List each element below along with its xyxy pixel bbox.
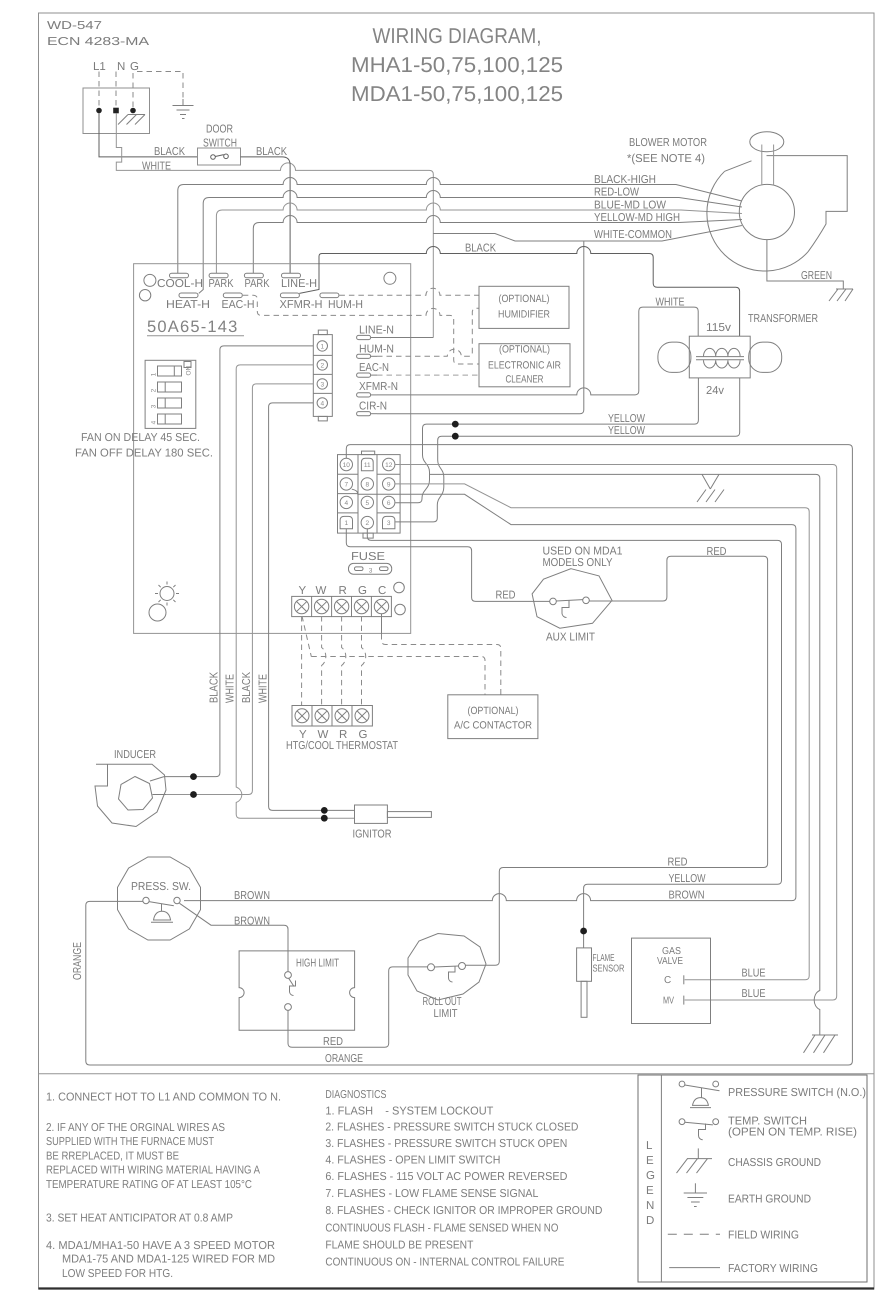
svg-text:BLUE: BLUE bbox=[742, 968, 766, 980]
svg-text:ROLL OUT: ROLL OUT bbox=[423, 996, 462, 1008]
pressure switch polygon bbox=[118, 857, 201, 940]
4-pin connector pin 3 bbox=[317, 379, 327, 389]
flame sensor rod bbox=[581, 981, 587, 1017]
dashed field wire Y down to thermostat bbox=[301, 616, 303, 706]
dashed field wire R to thermostat with hop bbox=[342, 616, 346, 706]
spade terminal EAC-N bbox=[357, 373, 377, 377]
svg-text:C: C bbox=[664, 975, 671, 986]
wire XFMR-H black to transformer bbox=[299, 247, 739, 337]
page border bottom dark edge bbox=[39, 1287, 875, 1289]
wire COOL-H to motor BLACK-HIGH bbox=[178, 178, 742, 274]
dashed wire HUM-N to humidifier bbox=[377, 308, 479, 356]
wire transformer secondary right yellow to pin3 bbox=[395, 378, 739, 522]
svg-text:C: C bbox=[378, 585, 386, 597]
svg-text:PARK: PARK bbox=[245, 278, 270, 290]
svg-text:CONTINUOUS FLASH - FLAME SENSE: CONTINUOUS FLASH - FLAME SENSED WHEN NO bbox=[325, 1223, 558, 1235]
svg-text:BLACK: BLACK bbox=[209, 672, 221, 703]
spade terminal LINE-N bbox=[357, 335, 377, 339]
DIP switch row 4 bbox=[158, 414, 182, 424]
svg-text:SENSOR: SENSOR bbox=[593, 964, 625, 975]
svg-text:MDA1-50,75,100,125: MDA1-50,75,100,125 bbox=[351, 82, 563, 106]
svg-text:R: R bbox=[339, 585, 347, 597]
legend pressure switch symbol bbox=[679, 1081, 719, 1108]
svg-text:HUMIDIFIER: HUMIDIFIER bbox=[498, 309, 550, 321]
DIP switch row 3 bbox=[158, 398, 182, 408]
aux limit contacts bbox=[550, 597, 590, 618]
svg-text:YELLOW: YELLOW bbox=[608, 413, 645, 425]
junction dot ignitor lead 1 bbox=[321, 807, 328, 814]
svg-text:ELECTRONIC AIR: ELECTRONIC AIR bbox=[488, 360, 561, 372]
wire black door switch to LINE-H bbox=[241, 157, 291, 273]
svg-text:IGNITOR: IGNITOR bbox=[353, 829, 392, 841]
svg-text:WHITE: WHITE bbox=[258, 674, 270, 703]
junction dot yellow 1 bbox=[452, 421, 459, 428]
screw terminal C bbox=[374, 599, 388, 613]
svg-text:EAC-H: EAC-H bbox=[222, 299, 255, 311]
svg-text:FLAME SHOULD BE PRESENT: FLAME SHOULD BE PRESENT bbox=[325, 1240, 473, 1252]
earth ground (top) bbox=[173, 99, 194, 119]
svg-text:LIMIT: LIMIT bbox=[434, 1008, 458, 1020]
capacitor stems bbox=[762, 145, 774, 186]
dashed wire HUM-H to humidifier bbox=[339, 288, 479, 295]
svg-text:10: 10 bbox=[343, 462, 351, 469]
svg-text:W: W bbox=[316, 585, 327, 597]
svg-text:TEMPERATURE RATING OF AT LEAST: TEMPERATURE RATING OF AT LEAST 105°C bbox=[46, 1179, 252, 1191]
notes separator line bbox=[39, 1073, 875, 1075]
svg-text:CHASSIS GROUND: CHASSIS GROUND bbox=[728, 1157, 821, 1169]
svg-text:PRESS. SW.: PRESS. SW. bbox=[131, 881, 191, 893]
thermostat screw W bbox=[315, 709, 329, 723]
svg-text:(OPTIONAL): (OPTIONAL) bbox=[499, 344, 550, 356]
svg-text:4. FLASHES - OPEN LIMIT SWITCH: 4. FLASHES - OPEN LIMIT SWITCH bbox=[325, 1155, 500, 1167]
wire pressure switch to high limit brown bbox=[180, 903, 289, 971]
control board outline 50A65-143 bbox=[134, 264, 411, 634]
svg-text:12: 12 bbox=[385, 462, 393, 469]
terminal dot L1 bbox=[96, 108, 102, 114]
svg-text:LOW SPEED FOR HTG.: LOW SPEED FOR HTG. bbox=[62, 1268, 173, 1280]
svg-text:BLUE-MD LOW: BLUE-MD LOW bbox=[594, 199, 666, 211]
svg-text:WHITE: WHITE bbox=[142, 161, 171, 173]
dashed lead N bbox=[115, 72, 117, 107]
svg-text:YELLOW-MD HIGH: YELLOW-MD HIGH bbox=[594, 212, 680, 224]
svg-text:FLAME: FLAME bbox=[593, 953, 615, 964]
12-pin pin 1 bbox=[340, 516, 352, 528]
4-pin connector pin 1 bbox=[317, 341, 327, 351]
LED sun symbol bbox=[155, 582, 179, 606]
12-pin pin 2 bbox=[361, 516, 373, 528]
dashed field wire G to thermostat with hop bbox=[362, 616, 366, 706]
thermostat terminal strip bbox=[292, 706, 372, 727]
board thermostat terminal strip bbox=[292, 596, 392, 616]
dashed wire EAC-H to electronic air cleaner bbox=[243, 295, 479, 364]
wire pin9 blue to gas valve C bbox=[395, 484, 809, 980]
chassis ground fork mid right bbox=[697, 474, 724, 502]
board hole right of C 1 bbox=[394, 582, 405, 593]
svg-text:BLOWER MOTOR: BLOWER MOTOR bbox=[629, 137, 707, 149]
spade terminal XFMR-N bbox=[357, 393, 377, 397]
svg-text:FUSE: FUSE bbox=[351, 551, 385, 563]
svg-text:4: 4 bbox=[344, 500, 348, 507]
svg-text:2: 2 bbox=[320, 362, 324, 369]
board hole right of C 2 bbox=[395, 604, 406, 615]
screw terminal R bbox=[334, 599, 348, 613]
svg-text:INDUCER: INDUCER bbox=[114, 749, 156, 761]
svg-text:HUM-N: HUM-N bbox=[359, 343, 394, 355]
wire LINE-N to neutral vertical bbox=[377, 337, 433, 339]
spade terminal LINE-H bbox=[282, 273, 301, 278]
svg-text:FAN OFF DELAY 180 SEC.: FAN OFF DELAY 180 SEC. bbox=[75, 448, 213, 460]
optional AC contactor box bbox=[448, 695, 538, 739]
svg-text:9: 9 bbox=[387, 481, 391, 488]
svg-text:BLACK: BLACK bbox=[154, 146, 185, 158]
svg-text:6: 6 bbox=[387, 500, 391, 507]
svg-text:ORANGE: ORANGE bbox=[72, 942, 84, 980]
green ground wire from motor bbox=[767, 240, 843, 289]
svg-text:4. MDA1/MHA1-50 HAVE A 3 SPEED: 4. MDA1/MHA1-50 HAVE A 3 SPEED MOTOR bbox=[46, 1240, 275, 1252]
svg-text:BROWN: BROWN bbox=[669, 889, 705, 901]
flame sensor body bbox=[577, 948, 592, 981]
junction dot yellow 2 bbox=[452, 433, 459, 440]
wire PARK1 to motor BLUE-MD LOW bbox=[216, 203, 742, 273]
svg-text:G: G bbox=[358, 585, 367, 597]
spade terminal PARK 1 bbox=[209, 273, 228, 278]
svg-text:(OPTIONAL): (OPTIONAL) bbox=[468, 705, 519, 717]
svg-text:5: 5 bbox=[365, 500, 369, 507]
door switch contacts bbox=[211, 154, 229, 159]
wire N white with jog bbox=[116, 113, 433, 337]
12-pin pin 10 bbox=[340, 458, 352, 470]
transformer secondary coil bbox=[704, 360, 741, 368]
svg-text:3: 3 bbox=[369, 568, 373, 575]
svg-text:L1: L1 bbox=[93, 61, 106, 73]
wire pin2 yellow to flame sensor bbox=[367, 529, 781, 948]
aux limit octagon bbox=[532, 569, 612, 629]
svg-text:3: 3 bbox=[151, 404, 158, 408]
12-pin pin 12 bbox=[383, 458, 395, 470]
thermostat screw Y bbox=[295, 709, 309, 723]
svg-text:2. IF ANY OF THE ORGINAL WIRES: 2. IF ANY OF THE ORGINAL WIRES AS bbox=[46, 1122, 225, 1134]
gas valve C terminal tick bbox=[683, 975, 685, 984]
inducer housing scroll bbox=[95, 764, 166, 826]
optional electronic air cleaner box bbox=[479, 344, 570, 387]
transformer primary coil bbox=[704, 348, 741, 356]
svg-text:RED: RED bbox=[496, 590, 516, 602]
svg-text:N: N bbox=[646, 1200, 654, 1212]
svg-text:L: L bbox=[646, 1140, 653, 1152]
DIP ON marker box bbox=[184, 362, 191, 368]
4-pin connector pin 2 bbox=[317, 360, 327, 370]
svg-text:(OPTIONAL): (OPTIONAL) bbox=[499, 293, 550, 305]
board circle below LED bbox=[149, 604, 166, 621]
screw terminal W bbox=[314, 599, 328, 613]
svg-text:MV: MV bbox=[663, 996, 674, 1007]
wire aux limit to red loop to roll out bbox=[466, 556, 768, 965]
svg-text:BLACK-HIGH: BLACK-HIGH bbox=[594, 174, 656, 186]
svg-text:REPLACED WITH WIRING MATERIAL: REPLACED WITH WIRING MATERIAL HAVING A bbox=[46, 1165, 260, 1177]
screw terminal Y bbox=[294, 599, 308, 613]
svg-text:2: 2 bbox=[151, 388, 158, 392]
junction dot ignitor lead 2 bbox=[321, 815, 328, 822]
wire CIR-N to white common bbox=[377, 241, 584, 414]
wire pin1 to aux limit bbox=[346, 529, 549, 602]
gas valve MV terminal tick bbox=[683, 996, 685, 1005]
svg-text:4: 4 bbox=[151, 420, 158, 424]
svg-text:RED: RED bbox=[668, 857, 688, 869]
svg-text:SUPPLIED WITH THE FURNACE MUST: SUPPLIED WITH THE FURNACE MUST bbox=[46, 1136, 214, 1148]
svg-text:2. FLASHES - PRESSURE SWITCH S: 2. FLASHES - PRESSURE SWITCH STUCK CLOSE… bbox=[325, 1122, 578, 1134]
svg-text:1: 1 bbox=[320, 343, 324, 350]
board hole top left 1 bbox=[144, 274, 156, 286]
svg-text:YELLOW: YELLOW bbox=[669, 873, 706, 885]
board hole top left 2 bbox=[139, 290, 150, 301]
svg-text:BE RREPLACED, IT MUST BE: BE RREPLACED, IT MUST BE bbox=[46, 1150, 179, 1162]
svg-text:1: 1 bbox=[344, 520, 348, 527]
chassis ground bottom right bbox=[804, 1035, 839, 1053]
blower motor rotor octagon bbox=[739, 184, 794, 239]
svg-text:7. FLASHES - LOW FLAME SENSE S: 7. FLASHES - LOW FLAME SENSE SIGNAL bbox=[325, 1188, 539, 1200]
dashed lead G bbox=[132, 73, 134, 108]
svg-text:HTG/COOL THERMOSTAT: HTG/COOL THERMOSTAT bbox=[286, 740, 398, 752]
svg-text:1. CONNECT HOT TO L1 AND COMMO: 1. CONNECT HOT TO L1 AND COMMON TO N. bbox=[46, 1092, 281, 1104]
svg-text:MHA1-50,75,100,125: MHA1-50,75,100,125 bbox=[351, 53, 563, 77]
svg-text:HIGH LIMIT: HIGH LIMIT bbox=[296, 958, 339, 970]
pressure switch contacts bbox=[143, 897, 180, 922]
dashed field wire Y slant bbox=[302, 616, 311, 657]
svg-text:XFMR-H: XFMR-H bbox=[280, 299, 323, 311]
wire XFMR-N white to transformer primary bbox=[377, 307, 698, 395]
svg-text:HUM-H: HUM-H bbox=[328, 299, 363, 311]
svg-text:3: 3 bbox=[320, 381, 324, 388]
svg-text:3. SET HEAT ANTICIPATOR AT 0.8: 3. SET HEAT ANTICIPATOR AT 0.8 AMP bbox=[46, 1212, 233, 1224]
4-pin connector body bbox=[313, 330, 332, 421]
svg-text:(OPEN ON TEMP. RISE): (OPEN ON TEMP. RISE) bbox=[728, 1127, 857, 1139]
12-pin pin 3 bbox=[383, 516, 395, 528]
wire HEAT-H to motor RED-LOW bbox=[199, 191, 742, 294]
svg-text:WHITE-COMMON: WHITE-COMMON bbox=[594, 229, 672, 241]
12-pin pin 5 bbox=[361, 496, 373, 508]
svg-text:CIR-N: CIR-N bbox=[359, 401, 387, 413]
fuse holder bbox=[349, 563, 392, 574]
svg-text:ECN 4283-MA: ECN 4283-MA bbox=[47, 36, 149, 48]
wire pin7 brown to pressure switch bbox=[184, 489, 796, 900]
svg-text:FACTORY WIRING: FACTORY WIRING bbox=[728, 1263, 818, 1275]
screw terminal G bbox=[354, 599, 368, 613]
ignitor element lead bbox=[387, 812, 431, 818]
svg-text:BLUE: BLUE bbox=[742, 988, 766, 1000]
svg-text:2: 2 bbox=[365, 520, 369, 527]
svg-text:BROWN: BROWN bbox=[234, 890, 270, 902]
legend divider bbox=[660, 1075, 662, 1282]
blower motor housing bbox=[707, 171, 808, 271]
svg-text:Y: Y bbox=[299, 585, 307, 597]
svg-text:TEMP. SWITCH: TEMP. SWITCH bbox=[728, 1116, 807, 1128]
svg-text:E: E bbox=[646, 1185, 654, 1197]
svg-text:3. FLASHES - PRESSURE SWITCH S: 3. FLASHES - PRESSURE SWITCH STUCK OPEN bbox=[325, 1138, 567, 1150]
spade terminal COOL-H bbox=[170, 273, 189, 278]
wire 24v ground line bbox=[430, 474, 820, 1035]
wire pin4 conn to ignitor white bbox=[269, 403, 355, 811]
ignitor body bbox=[355, 805, 388, 823]
svg-text:XFMR-N: XFMR-N bbox=[359, 381, 398, 393]
svg-text:AUX LIMIT: AUX LIMIT bbox=[546, 632, 595, 644]
svg-text:24v: 24v bbox=[706, 385, 724, 397]
4-pin connector pin 4 bbox=[317, 398, 327, 408]
12-pin pin 8 bbox=[361, 478, 373, 490]
12-pin pin 11 bbox=[361, 458, 373, 470]
wire C solid stub bbox=[381, 614, 383, 634]
svg-text:DIAGNOSTICS: DIAGNOSTICS bbox=[325, 1089, 386, 1101]
dashed lead G to earth ground bbox=[137, 72, 183, 100]
wire pin2 conn to ignitor white with hop bbox=[236, 365, 354, 818]
svg-text:CLEANER: CLEANER bbox=[506, 374, 544, 386]
roll out limit polygon bbox=[408, 934, 486, 1001]
svg-text:RED-LOW: RED-LOW bbox=[594, 187, 639, 199]
wire PARK2 to motor YELLOW-MD HIGH bbox=[253, 216, 742, 274]
svg-text:E: E bbox=[646, 1155, 654, 1167]
svg-text:WIRING DIAGRAM,: WIRING DIAGRAM, bbox=[373, 24, 542, 48]
svg-text:1. FLASH - SYSTEM LOCKOUT: 1. FLASH - SYSTEM LOCKOUT bbox=[325, 1106, 493, 1118]
svg-text:N: N bbox=[117, 61, 125, 73]
svg-text:DOOR: DOOR bbox=[206, 124, 233, 136]
spade terminal XFMR-H bbox=[280, 293, 299, 298]
blower motor scroll outlet bbox=[725, 156, 848, 252]
svg-text:115v: 115v bbox=[706, 322, 731, 334]
12-pin connector body bbox=[338, 451, 401, 538]
svg-text:PRESSURE SWITCH (N.O.): PRESSURE SWITCH (N.O.) bbox=[728, 1087, 866, 1099]
high limit switch contacts bbox=[285, 972, 296, 1011]
svg-text:EAC-N: EAC-N bbox=[359, 362, 389, 374]
wire WHITE-COMMON from N vertical to motor bbox=[433, 226, 742, 242]
gas valve box bbox=[632, 938, 711, 1023]
spade terminal HUM-N bbox=[357, 354, 377, 358]
svg-text:WHITE: WHITE bbox=[656, 297, 685, 309]
optional humidifier box bbox=[479, 286, 569, 328]
svg-text:*(SEE NOTE 4): *(SEE NOTE 4) bbox=[627, 153, 705, 165]
DIP switch row 1 bbox=[158, 366, 182, 376]
dashed field wire C to AC contactor bbox=[382, 634, 501, 695]
wire pin12 blue to gas valve MV bbox=[395, 465, 837, 1001]
blower motor capacitor oval bbox=[750, 132, 784, 152]
svg-text:LINE-H: LINE-H bbox=[281, 278, 317, 290]
svg-text:COOL-H: COOL-H bbox=[157, 278, 203, 290]
svg-text:YELLOW: YELLOW bbox=[608, 425, 645, 437]
svg-text:BLACK: BLACK bbox=[241, 672, 253, 703]
legend box bbox=[638, 1075, 867, 1282]
terminal dot G bbox=[130, 108, 136, 114]
svg-text:D: D bbox=[646, 1215, 654, 1227]
svg-text:3: 3 bbox=[387, 520, 391, 527]
inducer rotor heptagon bbox=[119, 777, 153, 811]
dashed field wire Y to AC contactor bbox=[311, 657, 485, 695]
wire pin1 conn to inducer black bbox=[164, 346, 313, 777]
svg-text:BLACK: BLACK bbox=[256, 146, 287, 158]
svg-text:RED: RED bbox=[707, 546, 727, 558]
svg-text:ON: ON bbox=[186, 365, 193, 375]
svg-text:TRANSFORMER: TRANSFORMER bbox=[748, 313, 818, 325]
svg-text:50A65-143: 50A65-143 bbox=[147, 318, 239, 336]
12-pin pin 4 bbox=[340, 496, 352, 508]
svg-text:VALVE: VALVE bbox=[657, 956, 683, 967]
svg-text:FIELD WIRING: FIELD WIRING bbox=[728, 1230, 799, 1242]
svg-text:4: 4 bbox=[320, 400, 324, 407]
svg-text:MDA1-75 AND MDA1-125 WIRED FOR: MDA1-75 AND MDA1-125 WIRED FOR MD bbox=[62, 1254, 275, 1266]
junction dot inducer lead 1 bbox=[190, 773, 197, 780]
svg-text:WHITE: WHITE bbox=[225, 674, 237, 703]
DIP switch block bbox=[145, 360, 196, 428]
12-pin pin 7 bbox=[340, 478, 352, 490]
inducer lead wires bbox=[150, 777, 166, 795]
svg-text:LINE-N: LINE-N bbox=[359, 325, 394, 337]
svg-text:WD-547: WD-547 bbox=[47, 20, 102, 32]
thermostat screw G bbox=[355, 709, 369, 723]
svg-text:GREEN: GREEN bbox=[801, 270, 832, 282]
svg-text:USED ON MDA1: USED ON MDA1 bbox=[543, 546, 623, 558]
spade terminal PARK 2 bbox=[244, 273, 263, 278]
chassis ground inside power box bbox=[118, 115, 145, 125]
svg-text:A/C CONTACTOR: A/C CONTACTOR bbox=[454, 720, 532, 732]
wire L1 hot to door switch bbox=[99, 113, 198, 157]
wire transformer secondary left yellow to pin6 bbox=[395, 378, 698, 503]
legend earth ground symbol bbox=[684, 1183, 707, 1206]
legend field wiring sample bbox=[668, 1233, 720, 1235]
transformer core lines bbox=[696, 357, 744, 360]
svg-text:11: 11 bbox=[364, 462, 371, 469]
DIP switch row 2 bbox=[158, 382, 182, 392]
transformer body bbox=[658, 336, 782, 378]
power entry box bbox=[83, 88, 150, 134]
chassis ground at motor bbox=[829, 289, 853, 301]
svg-text:8. FLASHES - CHECK IGNITOR OR: 8. FLASHES - CHECK IGNITOR OR IMPROPER G… bbox=[325, 1205, 602, 1217]
legend factory wiring sample bbox=[669, 1267, 720, 1269]
12-pin pin 6 bbox=[383, 496, 395, 508]
board hole top right bbox=[384, 272, 396, 284]
svg-text:MODELS ONLY: MODELS ONLY bbox=[543, 557, 613, 569]
wire pin10 orange loop to pressure switch bbox=[86, 445, 853, 1065]
part number underline bbox=[147, 335, 244, 337]
svg-text:EARTH GROUND: EARTH GROUND bbox=[728, 1194, 811, 1206]
terminal dot N (square) bbox=[113, 108, 119, 114]
junction dot flame sensor bbox=[580, 928, 587, 935]
dashed wire EAC-N to electronic air cleaner bbox=[377, 374, 479, 376]
svg-text:6. FLASHES - 115 VOLT AC POWER: 6. FLASHES - 115 VOLT AC POWER REVERSED bbox=[325, 1171, 567, 1183]
wire pin3 conn to inducer black bbox=[166, 384, 313, 795]
svg-text:BLACK: BLACK bbox=[465, 243, 496, 255]
door switch box bbox=[198, 148, 241, 165]
spade terminal CIR-N bbox=[357, 412, 377, 416]
svg-text:CONTINUOUS ON - INTERNAL CONTR: CONTINUOUS ON - INTERNAL CONTROL FAILURE bbox=[325, 1257, 564, 1269]
dashed field wire W to thermostat with hop bbox=[322, 616, 326, 706]
spade terminal HUM-H bbox=[320, 293, 339, 298]
roll out contacts bbox=[428, 963, 466, 983]
svg-text:PARK: PARK bbox=[209, 278, 234, 290]
spade terminal EAC-H bbox=[223, 293, 242, 298]
svg-text:HEAT-H: HEAT-H bbox=[166, 299, 210, 311]
dashed lead L1 bbox=[98, 72, 100, 109]
wire high limit to roll out red bbox=[288, 967, 428, 1047]
svg-text:G: G bbox=[646, 1170, 655, 1182]
svg-text:ORANGE: ORANGE bbox=[325, 1053, 363, 1065]
svg-text:RED: RED bbox=[323, 1036, 343, 1048]
svg-text:8: 8 bbox=[365, 481, 369, 488]
svg-text:1: 1 bbox=[151, 372, 158, 376]
12-pin pin 9 bbox=[383, 478, 395, 490]
svg-text:FAN ON DELAY 45 SEC.: FAN ON DELAY 45 SEC. bbox=[81, 432, 200, 444]
svg-text:7: 7 bbox=[344, 481, 348, 488]
spade terminal HEAT-H bbox=[179, 293, 198, 298]
legend temp switch symbol bbox=[679, 1119, 719, 1140]
thermostat screw R bbox=[335, 709, 349, 723]
high limit box bbox=[239, 951, 355, 1030]
